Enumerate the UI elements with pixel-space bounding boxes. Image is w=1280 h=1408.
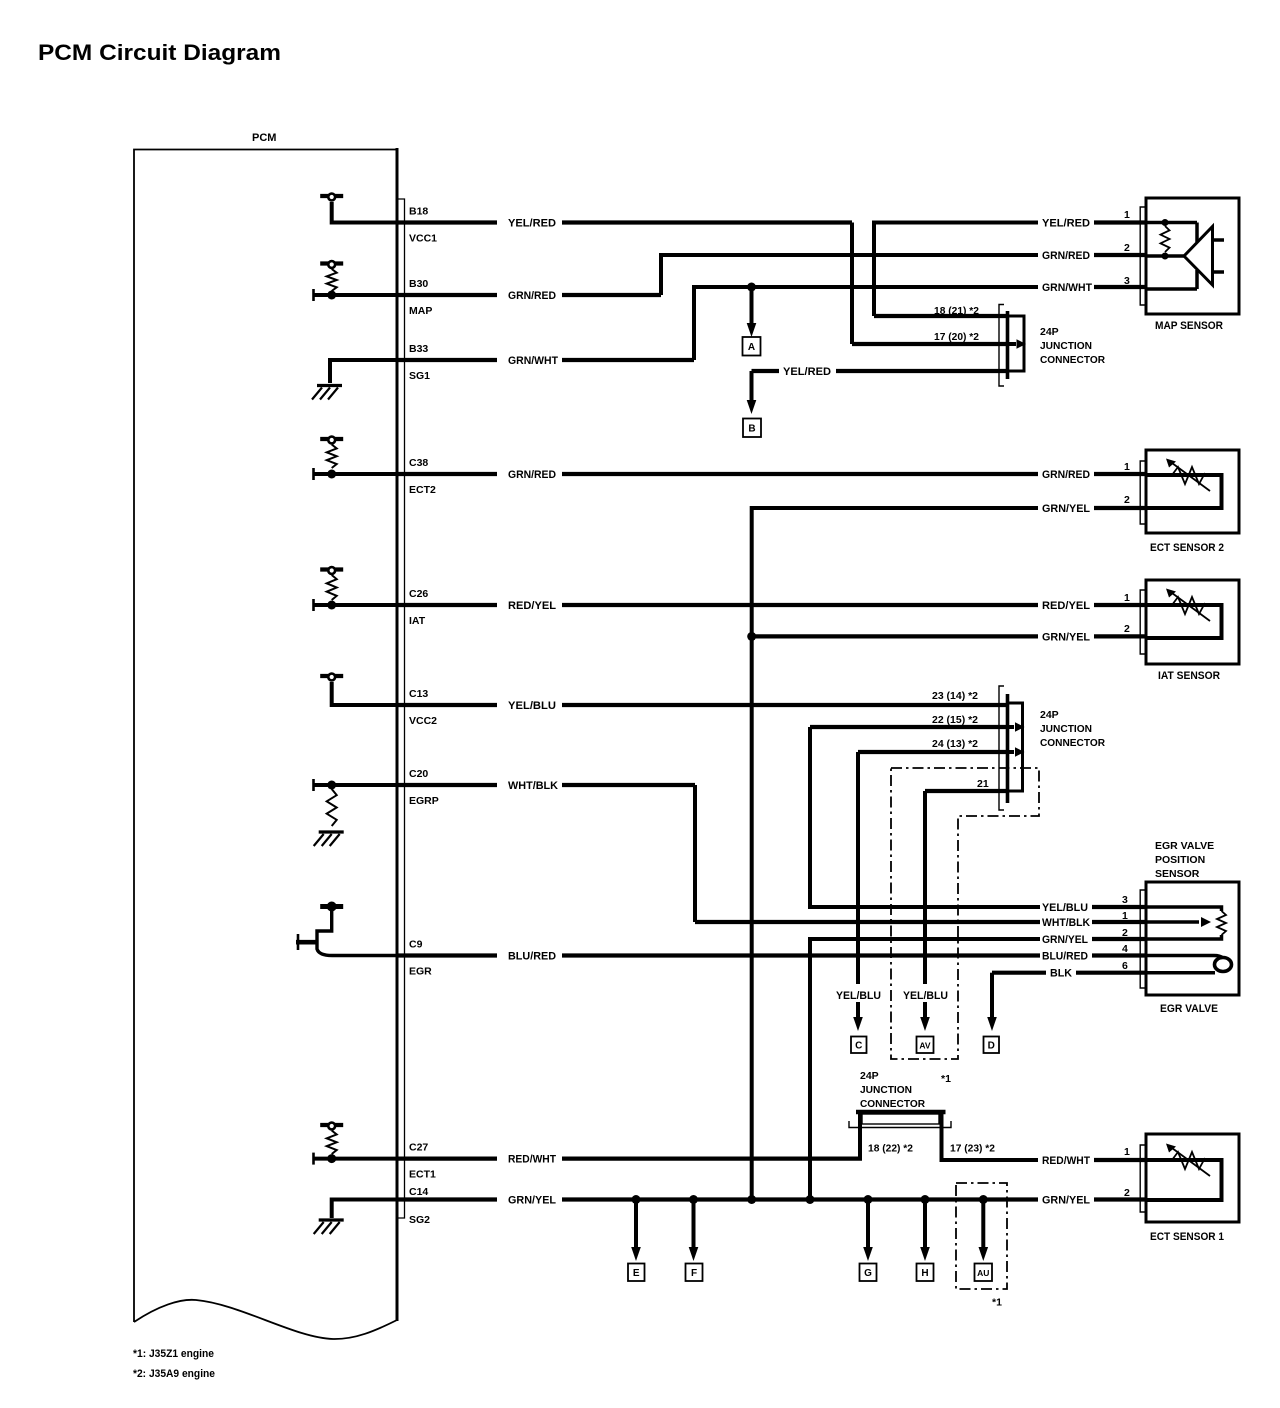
power symbol + resistor C27 (ECT1) <box>320 1123 343 1127</box>
svg-text:CONNECTOR: CONNECTOR <box>1040 354 1105 366</box>
wire 21 down to AV <box>923 791 927 984</box>
IAT sensor connector bracket <box>1140 590 1146 654</box>
arrow down to E <box>634 1200 638 1248</box>
svg-text:RED/WHT: RED/WHT <box>508 1154 556 1166</box>
connector box B <box>743 419 761 438</box>
24P junction connector 1 bar <box>1006 311 1010 379</box>
wire C13 YEL/BLU 23 (14) *2 <box>397 703 497 707</box>
24P junction connector 1 arrow <box>1008 342 1016 346</box>
svg-text:C14: C14 <box>409 1186 428 1198</box>
svg-text:AV: AV <box>919 1041 931 1051</box>
svg-text:GRN/YEL: GRN/YEL <box>1042 503 1090 515</box>
svg-text:GRN/RED: GRN/RED <box>508 469 556 481</box>
wire YEL/BLU to EGR pin3 <box>810 727 1040 907</box>
24P junction connector 3 bus bar <box>856 1110 946 1115</box>
svg-text:WHT/BLK: WHT/BLK <box>1042 917 1090 929</box>
wire GRN/RED jog up and right to MAP pin2 <box>661 255 1038 295</box>
svg-text:VCC2: VCC2 <box>409 715 437 727</box>
svg-text:2: 2 <box>1124 1187 1130 1199</box>
svg-text:23 (14) *2: 23 (14) *2 <box>932 690 978 702</box>
svg-text:C38: C38 <box>409 457 428 469</box>
svg-text:PCM: PCM <box>252 132 276 144</box>
ground SG1 <box>317 384 342 387</box>
svg-text:6: 6 <box>1122 960 1128 972</box>
24P junction connector 1 bracket <box>999 305 1004 387</box>
wire RED/WHT (right) <box>1094 1158 1146 1162</box>
wire WHT/BLK to EGR pin1 <box>695 920 1040 924</box>
svg-text:2: 2 <box>1124 242 1130 254</box>
wire 21 <box>925 789 1008 793</box>
ECT sensor 1 box <box>1146 1134 1239 1222</box>
svg-text:GRN/WHT: GRN/WHT <box>1042 282 1092 294</box>
junction node G <box>864 1195 873 1204</box>
svg-text:2: 2 <box>1124 623 1130 635</box>
svg-text:SG2: SG2 <box>409 1214 430 1226</box>
transistor symbol C9 (EGR driver) <box>320 904 343 909</box>
svg-text:EGRP: EGRP <box>409 795 439 807</box>
wire C26 RED/YEL <box>397 603 497 607</box>
connector box G <box>860 1264 877 1282</box>
EGR valve box <box>1146 882 1239 995</box>
EGR solenoid valve wire pin6 <box>1146 971 1215 975</box>
MAP sensor connector bracket <box>1140 207 1146 305</box>
wire C14 GRN/YEL bus <box>397 1197 497 1201</box>
wire C9 BLU/RED to EGR pin4 <box>397 953 497 957</box>
wire GRN/WHT jog up and right to MAP pin3 <box>694 287 1038 360</box>
24P junction connector 2 bracket <box>999 686 1004 810</box>
svg-text:17 (23) *2: 17 (23) *2 <box>950 1143 995 1155</box>
24P junction connector 3 right pin 17 (23) *2 <box>942 1112 1039 1160</box>
junction node E <box>632 1195 641 1204</box>
EGR solenoid valve wire pin4 <box>1146 956 1223 959</box>
arrow BLK down to D <box>990 973 994 1018</box>
svg-text:C26: C26 <box>409 588 428 600</box>
MAP sensor internal: wire into amp <box>1195 223 1199 243</box>
24P junction connector 2 bar <box>1006 694 1010 803</box>
junction node AU <box>979 1195 988 1204</box>
EGR valve connector bracket <box>1140 890 1146 988</box>
wire B30 GRN/RED (left) <box>397 293 497 297</box>
svg-text:22 (15) *2: 22 (15) *2 <box>932 714 978 726</box>
power symbol B18 (VCC1) <box>320 194 343 198</box>
ECT sensor 2 connector bracket <box>1140 461 1146 524</box>
svg-text:WHT/BLK: WHT/BLK <box>508 780 558 792</box>
connector box AU <box>975 1264 993 1282</box>
svg-text:GRN/YEL: GRN/YEL <box>1042 934 1088 946</box>
svg-text:ECT2: ECT2 <box>409 484 436 496</box>
svg-text:21: 21 <box>977 778 989 790</box>
svg-text:*1: J35Z1 engine: *1: J35Z1 engine <box>133 1348 214 1360</box>
MAP sensor internal: supply wire <box>1146 221 1197 225</box>
connector box AV <box>917 1037 934 1054</box>
svg-text:C9: C9 <box>409 939 423 951</box>
MAP sensor box <box>1146 198 1239 314</box>
junction node EGR-GRN-YEL/bus <box>806 1195 815 1204</box>
wire 24 (13) *2 <box>858 750 1008 754</box>
wire MAP pin1 YEL/RED (right) <box>874 223 1038 317</box>
svg-text:D: D <box>988 1041 995 1052</box>
24P junction connector 3 body <box>862 1114 939 1124</box>
arrow down to B <box>750 371 754 403</box>
connector box C <box>851 1037 867 1054</box>
arrow down to H <box>923 1200 927 1248</box>
wire ECT2 pin2 GRN/YEL <box>752 508 1038 1200</box>
power symbol + resistor B30 (MAP) <box>320 261 343 265</box>
svg-text:*1: *1 <box>992 1297 1002 1309</box>
MAP sensor internal: resistor <box>1162 219 1169 226</box>
ground SG2 <box>319 1218 344 1221</box>
junction node GRN/YEL trunk to IAT <box>747 632 756 641</box>
24P junction connector 2 bus <box>1008 703 1023 791</box>
svg-text:RED/WHT: RED/WHT <box>1042 1155 1090 1167</box>
connector box F <box>686 1264 703 1282</box>
wire C20 WHT/BLK <box>397 783 497 787</box>
wire 18 (21) *2 <box>874 314 1008 318</box>
junction node H <box>921 1195 930 1204</box>
svg-text:17 (20) *2: 17 (20) *2 <box>934 331 979 343</box>
svg-text:ECT SENSOR 2: ECT SENSOR 2 <box>1150 542 1224 554</box>
resistor C20 to ground <box>327 781 336 790</box>
svg-text:AU: AU <box>977 1268 989 1278</box>
svg-text:24P: 24P <box>860 1070 879 1082</box>
wire C38 GRN/RED <box>397 472 497 476</box>
svg-text:3: 3 <box>1122 894 1128 906</box>
svg-text:C20: C20 <box>409 768 428 780</box>
svg-text:E: E <box>633 1268 640 1279</box>
svg-text:JUNCTION: JUNCTION <box>1040 340 1092 352</box>
svg-text:18 (21) *2: 18 (21) *2 <box>934 305 979 317</box>
wire YEL/RED corner down to junction pin 17 <box>850 223 854 345</box>
svg-text:1: 1 <box>1122 910 1128 922</box>
svg-text:MAP SENSOR: MAP SENSOR <box>1155 320 1223 332</box>
svg-text:YEL/RED: YEL/RED <box>783 366 831 378</box>
svg-text:GRN/WHT: GRN/WHT <box>508 355 558 367</box>
wire B33 GRN/WHT (left) <box>397 358 497 362</box>
24P junction connector 3 left pin 18 (22) *2 <box>858 1112 862 1159</box>
24P junction connector 1 bus <box>1008 316 1024 371</box>
arrow down to A <box>750 287 754 326</box>
svg-text:2: 2 <box>1124 494 1130 506</box>
svg-text:GRN/YEL: GRN/YEL <box>1042 1195 1090 1207</box>
wire C27 stub <box>313 1157 397 1161</box>
svg-text:C: C <box>855 1041 862 1052</box>
svg-text:YEL/BLU: YEL/BLU <box>508 700 556 712</box>
connector box D <box>984 1037 1000 1054</box>
24P junction connector 3 bracket <box>849 1121 951 1128</box>
junction node on GRN/WHT <box>747 283 756 292</box>
wire WHT/BLK jog down to EGR pin1 <box>693 785 697 922</box>
svg-text:YEL/RED: YEL/RED <box>1042 218 1090 230</box>
wire B30 stub <box>313 293 397 297</box>
MAP sensor internal: signal wire <box>1146 254 1184 258</box>
arrow down to AU <box>981 1200 985 1248</box>
wire 22 (15) *2 <box>810 725 1008 729</box>
svg-text:EGR VALVE: EGR VALVE <box>1155 840 1214 852</box>
svg-text:B: B <box>748 424 755 435</box>
svg-text:1: 1 <box>1124 461 1130 473</box>
connector box A <box>743 337 761 356</box>
svg-text:H: H <box>921 1268 928 1279</box>
svg-text:1: 1 <box>1124 1146 1130 1158</box>
PCM box outline (top/left) <box>134 150 397 1323</box>
svg-text:18 (22) *2: 18 (22) *2 <box>868 1143 913 1155</box>
IAT sensor thermistor <box>1146 605 1222 638</box>
wire BLK EGR pin6 <box>992 971 1046 975</box>
svg-text:24P: 24P <box>1040 326 1059 338</box>
ECT sensor 2 thermistor <box>1146 475 1222 508</box>
svg-text:GRN/YEL: GRN/YEL <box>1042 631 1090 643</box>
svg-text:YEL/RED: YEL/RED <box>508 218 556 230</box>
svg-text:CONNECTOR: CONNECTOR <box>860 1098 925 1110</box>
svg-text:24 (13) *2: 24 (13) *2 <box>932 738 978 750</box>
IAT sensor box <box>1146 580 1239 664</box>
dash-dot enclosure *1 (around 21/AV) <box>891 768 1039 1059</box>
svg-text:GRN/RED: GRN/RED <box>1042 250 1090 262</box>
ECT sensor 2 box <box>1146 450 1239 533</box>
wire C20 stub <box>313 783 397 787</box>
wire 16 (19) *2 YEL/RED to B <box>752 369 780 373</box>
svg-text:F: F <box>691 1268 697 1279</box>
wire GRN/YEL to EGR pin2 <box>810 939 1040 1200</box>
svg-text:*2: J35A9 engine: *2: J35A9 engine <box>133 1368 215 1380</box>
svg-text:4: 4 <box>1122 943 1128 955</box>
svg-text:B30: B30 <box>409 278 428 290</box>
svg-text:PCM Circuit Diagram: PCM Circuit Diagram <box>38 40 281 65</box>
svg-text:3: 3 <box>1124 275 1130 287</box>
svg-text:ECT1: ECT1 <box>409 1169 436 1181</box>
junction node trunk/bus <box>747 1195 756 1204</box>
power symbol + resistor C38 (ECT2) <box>320 437 343 441</box>
svg-text:ECT SENSOR 1: ECT SENSOR 1 <box>1150 1231 1224 1243</box>
svg-text:JUNCTION: JUNCTION <box>1040 723 1092 735</box>
svg-text:*1: *1 <box>941 1073 951 1085</box>
svg-text:GRN/RED: GRN/RED <box>508 290 556 302</box>
svg-text:C13: C13 <box>409 688 428 700</box>
svg-text:IAT SENSOR: IAT SENSOR <box>1158 670 1220 682</box>
MAP sensor internal: amplifier triangle <box>1184 227 1213 286</box>
wire C26 stub <box>313 603 397 607</box>
power symbol + resistor C26 (IAT) <box>320 567 343 571</box>
EGR position sensor potentiometer <box>1146 907 1222 911</box>
svg-text:JUNCTION: JUNCTION <box>860 1084 912 1096</box>
svg-text:C27: C27 <box>409 1142 428 1154</box>
svg-text:B33: B33 <box>409 343 428 355</box>
PCM box right edge <box>396 148 399 1321</box>
wire C27 RED/WHT (left) <box>397 1156 497 1160</box>
svg-text:GRN/RED: GRN/RED <box>1042 469 1090 481</box>
EGR position sensor wiper arrow <box>1146 920 1199 924</box>
svg-text:CONNECTOR: CONNECTOR <box>1040 737 1105 749</box>
wire C14 to ground <box>332 1200 397 1219</box>
svg-text:VCC1: VCC1 <box>409 233 437 245</box>
svg-text:2: 2 <box>1122 927 1128 939</box>
MAP sensor internal: ground wire <box>1146 287 1197 291</box>
svg-text:1: 1 <box>1124 592 1130 604</box>
arrow down to F <box>692 1200 696 1248</box>
svg-text:YEL/BLU: YEL/BLU <box>903 990 948 1002</box>
PCM connector bracket (thin inner line) <box>397 199 405 1218</box>
svg-text:A: A <box>748 342 755 353</box>
24P junction connector 2 arrows <box>1008 725 1014 729</box>
wire B33 to ground <box>330 360 397 383</box>
svg-text:GRN/YEL: GRN/YEL <box>508 1195 556 1207</box>
svg-text:RED/YEL: RED/YEL <box>1042 600 1090 612</box>
ECT sensor 1 thermistor <box>1146 1160 1222 1200</box>
wire 24(13) down to C <box>856 752 860 984</box>
EGR solenoid coil <box>1215 958 1232 972</box>
svg-text:RED/YEL: RED/YEL <box>508 600 556 612</box>
svg-text:BLU/RED: BLU/RED <box>508 951 556 963</box>
svg-text:EGR VALVE: EGR VALVE <box>1160 1003 1218 1015</box>
ground EGRP <box>319 830 344 833</box>
junction node F <box>689 1195 698 1204</box>
ECT sensor 1 connector bracket <box>1140 1145 1146 1212</box>
connector box H <box>917 1264 934 1282</box>
wire 17 (20) *2 <box>852 342 1008 346</box>
svg-text:BLK: BLK <box>1050 968 1072 980</box>
MAP sensor internal: output stubs <box>1213 238 1225 242</box>
wire IAT pin2 GRN/YEL <box>752 634 1038 638</box>
svg-text:MAP: MAP <box>409 305 432 317</box>
svg-text:SENSOR: SENSOR <box>1155 868 1200 880</box>
svg-text:1: 1 <box>1124 209 1130 221</box>
svg-text:SG1: SG1 <box>409 370 430 382</box>
svg-text:YEL/BLU: YEL/BLU <box>836 990 881 1002</box>
svg-text:POSITION: POSITION <box>1155 854 1205 866</box>
wire B18 YEL/RED (left) <box>397 220 497 224</box>
power symbol C13 (VCC2) <box>320 674 343 678</box>
svg-text:BLU/RED: BLU/RED <box>1042 951 1088 963</box>
wire C38 stub <box>313 472 397 476</box>
arrow down to G <box>866 1200 870 1248</box>
svg-text:G: G <box>864 1268 872 1279</box>
connector box E <box>628 1264 645 1282</box>
svg-text:EGR: EGR <box>409 966 432 978</box>
PCM box wavy bottom edge <box>134 1300 397 1339</box>
dash-dot enclosure *1 (around AU) <box>956 1183 1007 1289</box>
svg-text:24P: 24P <box>1040 709 1059 721</box>
svg-text:IAT: IAT <box>409 615 426 627</box>
svg-text:YEL/BLU: YEL/BLU <box>1042 902 1088 914</box>
svg-text:B18: B18 <box>409 206 428 218</box>
